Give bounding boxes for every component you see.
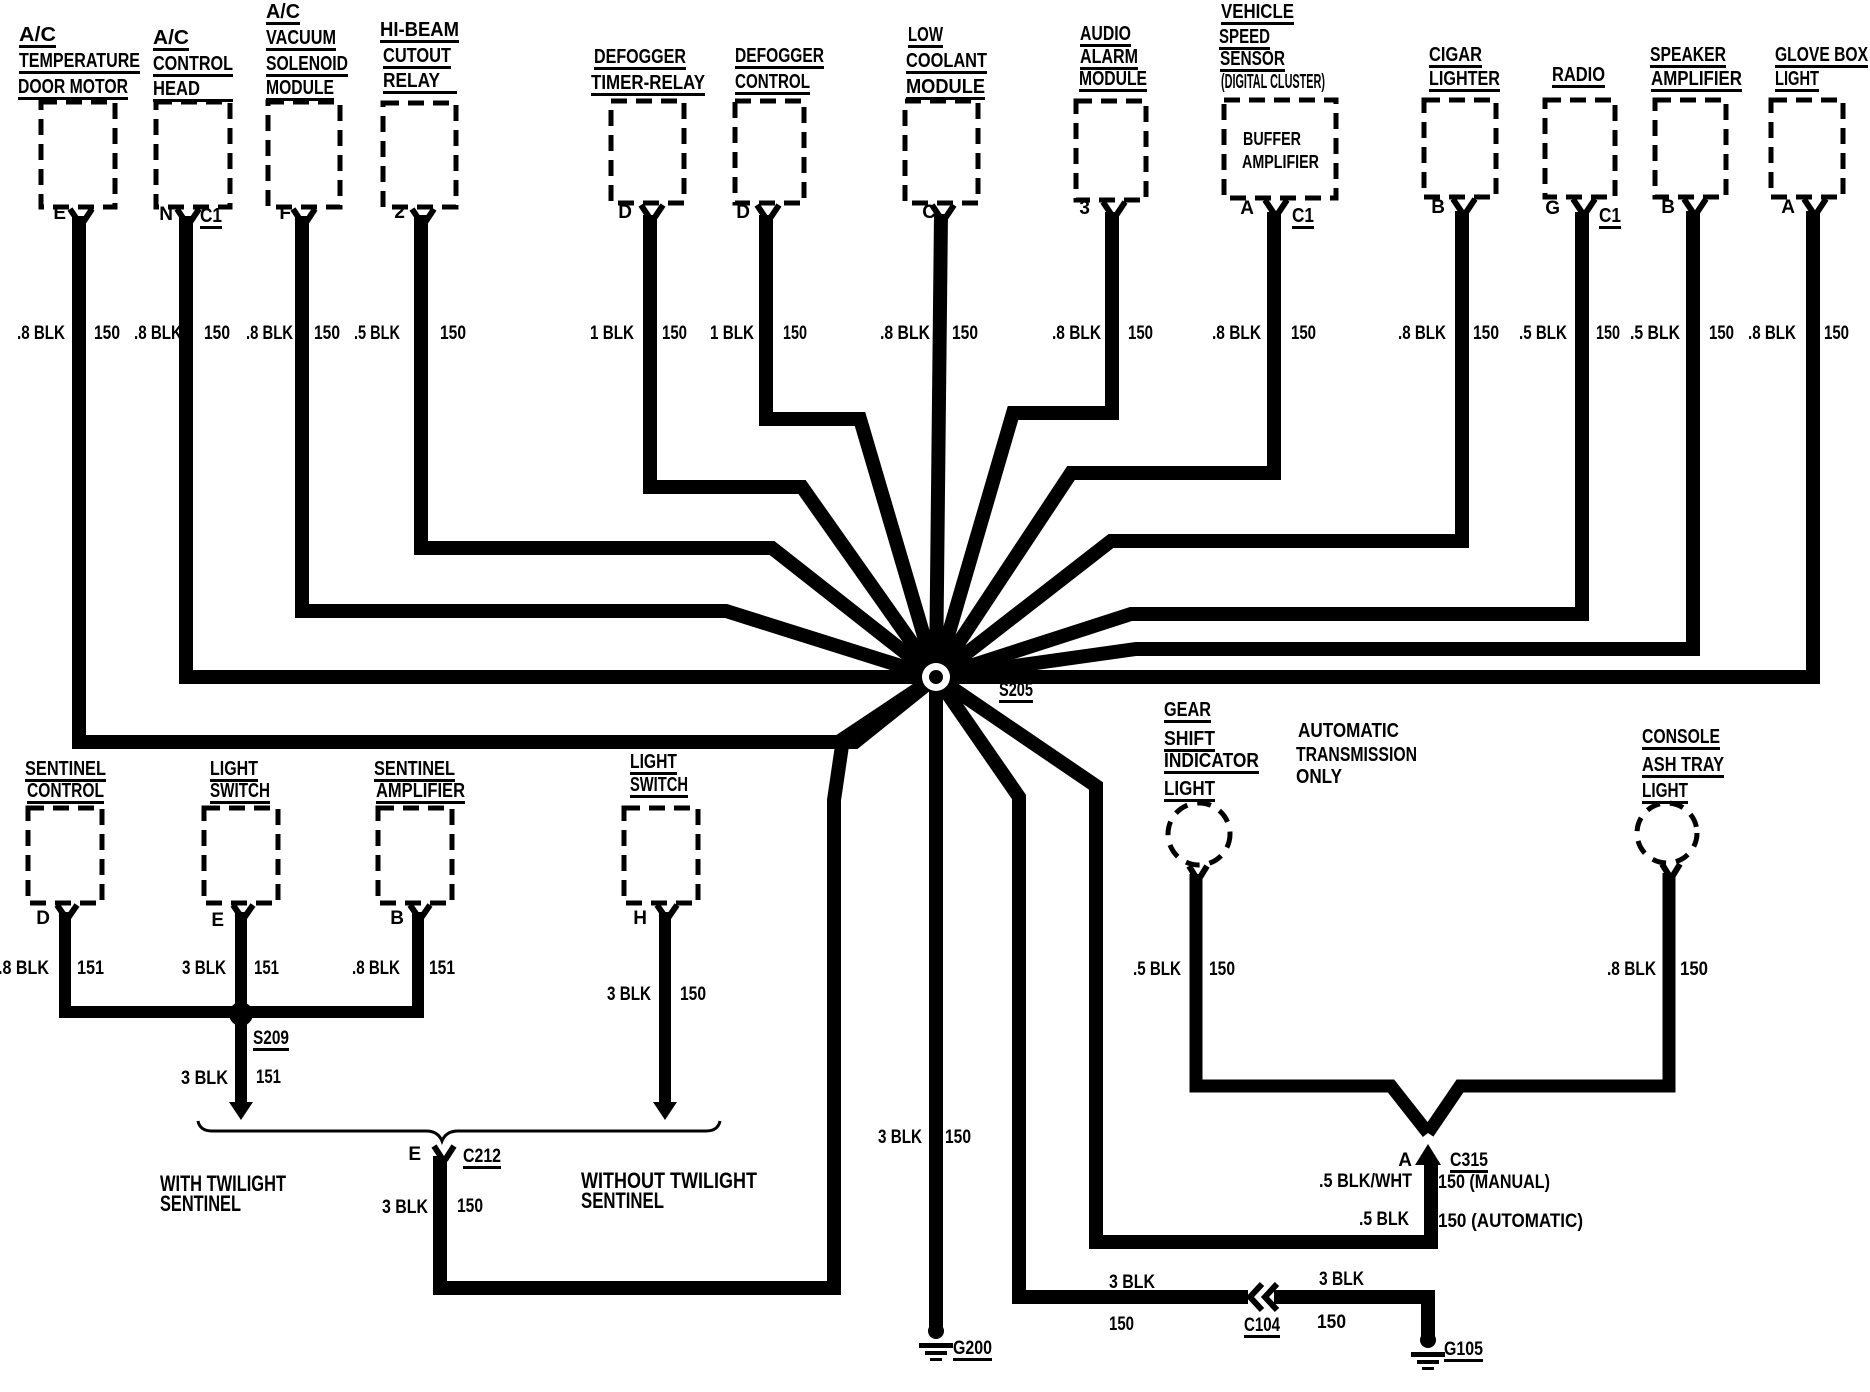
svg-text:150: 150: [1824, 323, 1849, 344]
svg-text:INDICATOR: INDICATOR: [1164, 750, 1259, 772]
svg-text:LIGHT: LIGHT: [1775, 68, 1819, 90]
svg-text:150: 150: [440, 323, 466, 344]
svg-text:C1: C1: [200, 205, 222, 227]
svg-text:3 BLK: 3 BLK: [382, 1197, 428, 1218]
svg-text:151: 151: [77, 958, 104, 979]
svg-text:MODULE: MODULE: [906, 76, 985, 98]
svg-text:E: E: [211, 910, 224, 931]
svg-text:C212: C212: [463, 1146, 501, 1167]
svg-text:(DIGITAL CLUSTER): (DIGITAL CLUSTER): [1221, 71, 1325, 93]
svg-text:C1: C1: [1599, 205, 1621, 227]
svg-text:.8 BLK: .8 BLK: [1052, 323, 1101, 344]
svg-text:LIGHT: LIGHT: [1164, 778, 1215, 800]
svg-text:SPEED: SPEED: [1219, 26, 1270, 48]
svg-text:150: 150: [680, 984, 706, 1005]
svg-text:.8 BLK: .8 BLK: [1212, 323, 1261, 344]
svg-text:D: D: [36, 908, 50, 929]
svg-text:150: 150: [94, 323, 120, 344]
svg-text:150: 150: [662, 323, 687, 344]
svg-text:LIGHT: LIGHT: [1642, 780, 1688, 802]
svg-text:.8 BLK: .8 BLK: [17, 323, 65, 344]
svg-text:150: 150: [952, 323, 978, 344]
svg-text:VACUUM: VACUUM: [266, 27, 336, 49]
svg-text:ASH TRAY: ASH TRAY: [1642, 754, 1725, 776]
svg-text:CONSOLE: CONSOLE: [1642, 726, 1720, 748]
svg-text:3 BLK: 3 BLK: [1319, 1269, 1364, 1290]
svg-text:150 (MANUAL): 150 (MANUAL): [1438, 1172, 1550, 1193]
svg-text:C104: C104: [1244, 1315, 1280, 1336]
svg-text:.8 BLK: .8 BLK: [1748, 323, 1796, 344]
svg-text:B: B: [390, 908, 404, 929]
svg-text:.5 BLK/WHT: .5 BLK/WHT: [1319, 1171, 1412, 1192]
svg-text:H: H: [633, 908, 647, 929]
svg-text:VEHICLE: VEHICLE: [1221, 1, 1294, 23]
svg-text:LOW: LOW: [908, 24, 943, 46]
svg-text:RADIO: RADIO: [1552, 64, 1605, 86]
svg-text:.8 BLK: .8 BLK: [880, 323, 930, 344]
svg-text:150: 150: [314, 323, 340, 344]
svg-text:COOLANT: COOLANT: [906, 50, 987, 72]
svg-text:ONLY: ONLY: [1296, 766, 1343, 788]
svg-text:150 (AUTOMATIC): 150 (AUTOMATIC): [1438, 1211, 1583, 1232]
svg-text:SENSOR: SENSOR: [1220, 48, 1285, 70]
svg-text:A/C: A/C: [19, 24, 56, 46]
svg-text:LIGHTER: LIGHTER: [1429, 68, 1500, 90]
svg-text:E: E: [53, 203, 66, 224]
svg-text:TEMPERATURE: TEMPERATURE: [19, 50, 140, 72]
svg-text:SWITCH: SWITCH: [210, 780, 270, 802]
svg-text:.8 BLK: .8 BLK: [134, 323, 182, 344]
svg-text:E: E: [408, 1144, 421, 1165]
svg-text:AMPLIFIER: AMPLIFIER: [1651, 68, 1742, 90]
svg-text:LIGHT: LIGHT: [630, 751, 677, 773]
svg-text:150: 150: [1209, 959, 1235, 980]
svg-text:151: 151: [254, 958, 279, 979]
svg-text:150: 150: [1680, 959, 1708, 980]
svg-text:3 BLK: 3 BLK: [1109, 1272, 1155, 1293]
svg-text:.5 BLK: .5 BLK: [1519, 323, 1567, 344]
svg-text:HEAD: HEAD: [153, 78, 200, 100]
svg-text:N: N: [159, 204, 173, 225]
svg-text:G200: G200: [953, 1338, 992, 1359]
svg-text:F: F: [279, 203, 291, 224]
svg-text:DEFOGGER: DEFOGGER: [594, 46, 686, 68]
svg-text:RELAY: RELAY: [383, 70, 441, 92]
svg-text:.5 BLK: .5 BLK: [354, 323, 400, 344]
svg-text:CONTROL: CONTROL: [735, 71, 810, 93]
svg-text:3: 3: [1079, 198, 1090, 219]
svg-text:AUDIO: AUDIO: [1080, 23, 1131, 45]
svg-text:S205: S205: [999, 680, 1033, 701]
svg-text:150: 150: [1128, 323, 1153, 344]
svg-text:D: D: [736, 202, 750, 223]
svg-text:DEFOGGER: DEFOGGER: [735, 45, 824, 67]
svg-text:MODULE: MODULE: [266, 77, 334, 99]
svg-text:SHIFT: SHIFT: [1164, 728, 1215, 750]
svg-text:GLOVE BOX: GLOVE BOX: [1775, 44, 1869, 66]
svg-text:D: D: [618, 202, 632, 223]
svg-text:CONTROL: CONTROL: [27, 780, 104, 802]
svg-text:DOOR MOTOR: DOOR MOTOR: [18, 76, 128, 98]
svg-text:CONTROL: CONTROL: [153, 53, 233, 75]
svg-text:MODULE: MODULE: [1079, 68, 1147, 90]
svg-text:150: 150: [1291, 323, 1316, 344]
svg-text:150: 150: [945, 1127, 971, 1148]
svg-text:150: 150: [457, 1196, 483, 1217]
svg-text:A: A: [1398, 1150, 1412, 1171]
svg-text:A/C: A/C: [153, 27, 189, 49]
svg-text:HI-BEAM: HI-BEAM: [380, 19, 459, 41]
svg-text:150: 150: [1109, 1314, 1134, 1335]
svg-text:3 BLK: 3 BLK: [878, 1127, 922, 1148]
svg-text:GEAR: GEAR: [1164, 699, 1211, 721]
svg-text:3 BLK: 3 BLK: [181, 1068, 228, 1089]
svg-text:.8 BLK: .8 BLK: [0, 958, 49, 979]
svg-text:AMPLIFIER: AMPLIFIER: [1242, 152, 1319, 172]
svg-text:.5 BLK: .5 BLK: [1133, 959, 1181, 980]
svg-text:S209: S209: [253, 1028, 289, 1049]
svg-text:CUTOUT: CUTOUT: [383, 45, 451, 67]
svg-text:A: A: [1781, 197, 1795, 218]
svg-text:3 BLK: 3 BLK: [607, 984, 651, 1005]
svg-text:.8 BLK: .8 BLK: [1607, 959, 1656, 980]
svg-text:.8 BLK: .8 BLK: [1398, 323, 1446, 344]
svg-text:2: 2: [394, 202, 405, 223]
svg-text:C1: C1: [1292, 205, 1314, 227]
svg-text:AUTOMATIC: AUTOMATIC: [1298, 720, 1399, 742]
svg-text:150: 150: [1709, 323, 1734, 344]
svg-text:150: 150: [204, 323, 230, 344]
svg-text:LIGHT: LIGHT: [210, 758, 258, 780]
svg-text:151: 151: [256, 1067, 281, 1088]
svg-text:B: B: [1431, 197, 1445, 218]
svg-text:TRANSMISSION: TRANSMISSION: [1296, 744, 1417, 766]
svg-text:3 BLK: 3 BLK: [182, 958, 226, 979]
svg-text:G: G: [1545, 198, 1560, 219]
svg-text:SENTINEL: SENTINEL: [25, 758, 106, 780]
svg-text:G105: G105: [1444, 1339, 1483, 1360]
svg-text:SPEAKER: SPEAKER: [1650, 44, 1726, 66]
svg-text:SENTINEL: SENTINEL: [374, 758, 455, 780]
svg-text:150: 150: [1317, 1312, 1346, 1333]
svg-text:151: 151: [429, 958, 455, 979]
svg-text:A: A: [1240, 198, 1254, 219]
svg-text:.5 BLK: .5 BLK: [1630, 323, 1680, 344]
svg-text:.8 BLK: .8 BLK: [246, 323, 293, 344]
svg-text:BUFFER: BUFFER: [1243, 129, 1301, 149]
svg-text:.8 BLK: .8 BLK: [352, 958, 400, 979]
svg-text:SWITCH: SWITCH: [630, 774, 688, 796]
svg-text:SENTINEL: SENTINEL: [160, 1191, 241, 1216]
svg-text:1 BLK: 1 BLK: [710, 323, 754, 344]
svg-text:SENTINEL: SENTINEL: [581, 1188, 664, 1213]
svg-text:1 BLK: 1 BLK: [590, 323, 634, 344]
svg-text:AMPLIFIER: AMPLIFIER: [376, 780, 465, 802]
svg-text:CIGAR: CIGAR: [1429, 44, 1482, 66]
svg-text:SOLENOID: SOLENOID: [266, 53, 348, 75]
svg-text:150: 150: [1596, 323, 1620, 344]
svg-text:150: 150: [783, 323, 807, 344]
svg-text:ALARM: ALARM: [1080, 46, 1138, 68]
svg-text:C315: C315: [1450, 1150, 1488, 1171]
svg-text:TIMER-RELAY: TIMER-RELAY: [591, 72, 706, 94]
svg-text:.5 BLK: .5 BLK: [1359, 1209, 1409, 1230]
svg-text:B: B: [1661, 197, 1675, 218]
svg-text:150: 150: [1473, 323, 1499, 344]
svg-text:A/C: A/C: [266, 1, 300, 23]
